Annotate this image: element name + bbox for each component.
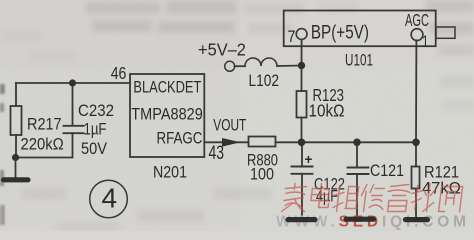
ground bar R121 <box>406 217 428 222</box>
wire pin7 down <box>301 39 303 65</box>
watermark char jia <box>282 184 308 212</box>
inductor L102 <box>245 58 277 66</box>
wire C121 top <box>356 142 358 167</box>
junction node dots <box>12 62 420 161</box>
wire AGC down <box>415 40 417 142</box>
wire R123 top <box>301 66 303 92</box>
watermark char wei <box>332 186 360 212</box>
wire C122 bottom <box>301 174 303 218</box>
node L102/pin7/R123 <box>298 62 305 69</box>
wire left vertical to R217 <box>15 83 17 106</box>
watermark char dian <box>310 184 331 208</box>
node C121 <box>353 139 361 147</box>
wire R121 bottom <box>415 189 417 219</box>
node AGC/R121 <box>412 139 420 147</box>
ground bar R217 <box>4 177 29 182</box>
wire R123 bottom <box>301 118 303 143</box>
wire R217 bottom <box>15 135 17 158</box>
red watermark pseudo-hanzi strokes <box>282 184 463 212</box>
watermark char wang <box>439 187 463 212</box>
arrow on VOUT wire <box>222 138 241 147</box>
wire R121 top <box>415 142 417 166</box>
pin 1 AGC circle <box>411 29 423 41</box>
wire +5V-2 terminal lead <box>235 65 245 67</box>
wire pin43 <box>204 141 248 143</box>
watermark char zi <box>386 185 411 212</box>
wire C232 bottom L <box>16 133 73 157</box>
scan edge smudges on left <box>0 84 5 225</box>
wire L102 to node <box>277 65 302 68</box>
watermark char liao <box>410 184 436 212</box>
resistor R121 <box>412 167 420 189</box>
node R217/C232 ground <box>12 154 19 161</box>
capacitor C121 <box>348 168 369 175</box>
ground bar C122 <box>288 217 315 222</box>
capacitor C122 <box>292 167 313 174</box>
capacitor C232 <box>64 126 84 133</box>
node pin46/C232 <box>69 79 76 86</box>
wire AGC bus <box>276 141 417 143</box>
wire pin46 horizontal <box>16 82 130 84</box>
wire C121 bottom <box>356 174 358 218</box>
wire C232 drop <box>72 83 74 126</box>
tuner U101 box <box>284 11 436 47</box>
annotation circle 4 <box>90 180 128 218</box>
ground stem R217 <box>15 158 17 178</box>
resistor R123 <box>297 91 307 118</box>
terminal +5V-2 <box>225 61 235 71</box>
resistor R217 <box>11 106 22 135</box>
node R123/R880/C122 <box>298 139 306 147</box>
watermark char xiu <box>360 185 386 212</box>
wire C122 top <box>301 142 303 166</box>
pin 7 circle <box>296 29 307 40</box>
ground bar C121 <box>346 217 374 222</box>
tuner tab <box>436 27 455 38</box>
resistor R880 <box>249 137 276 147</box>
op IC box N201 <box>130 74 204 157</box>
